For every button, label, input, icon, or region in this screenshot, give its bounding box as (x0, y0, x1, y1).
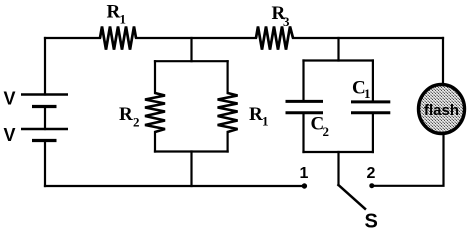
svg-text:R: R (249, 104, 263, 125)
svg-text:S: S (365, 211, 378, 232)
svg-text:R: R (119, 104, 133, 125)
svg-text:2: 2 (367, 165, 376, 182)
svg-text:V: V (4, 125, 16, 145)
svg-text:2: 2 (133, 115, 140, 130)
svg-text:2: 2 (323, 124, 330, 139)
svg-text:1: 1 (364, 86, 371, 101)
svg-text:V: V (4, 89, 16, 109)
svg-text:R: R (107, 2, 121, 23)
svg-text:flash: flash (424, 102, 459, 119)
svg-text:3: 3 (283, 14, 290, 29)
svg-text:1: 1 (262, 114, 269, 129)
svg-text:1: 1 (300, 165, 309, 182)
svg-text:1: 1 (120, 12, 127, 27)
